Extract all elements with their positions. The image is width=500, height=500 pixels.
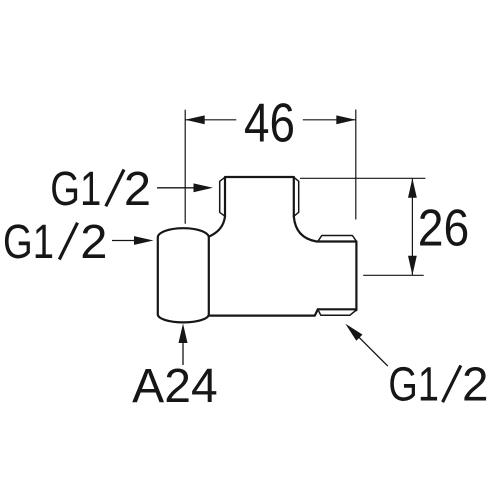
svg-text:G1: G1 <box>3 216 54 269</box>
svg-text:2: 2 <box>80 216 107 269</box>
svg-text:2: 2 <box>462 359 489 412</box>
svg-text:A24: A24 <box>132 360 218 413</box>
svg-text:26: 26 <box>418 198 470 256</box>
svg-text:G1: G1 <box>50 163 101 216</box>
svg-text:46: 46 <box>244 93 295 154</box>
svg-text:G1: G1 <box>388 359 439 412</box>
svg-text:2: 2 <box>124 163 151 216</box>
